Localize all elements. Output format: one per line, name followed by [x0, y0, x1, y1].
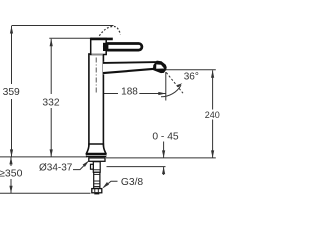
- dim 0-45 vertical line upper: [163, 142, 165, 158]
- angle arc: [161, 85, 181, 97]
- spout beak: [153, 61, 166, 73]
- dim 240 extension line: [166, 69, 216, 71]
- deck top line: [0, 156, 87, 158]
- dashed raised lever arc: [99, 26, 120, 35]
- dim 359 extension line top: [12, 25, 114, 27]
- svg-text:359: 359: [3, 87, 20, 98]
- dashed 36deg line: [166, 73, 183, 94]
- base flare: [86, 144, 106, 154]
- washer plate: [89, 158, 105, 161]
- svg-text:≥350: ≥350: [0, 168, 23, 180]
- svg-text:188: 188: [121, 87, 138, 98]
- svg-text:G3/8: G3/8: [121, 177, 144, 188]
- faucet body: [89, 54, 104, 148]
- shank tip: [94, 193, 99, 195]
- spout beak white slit: [156, 64, 164, 68]
- dim 332 extension line: [49, 37, 92, 39]
- lever neck: [103, 43, 108, 51]
- lever handle capsule: [104, 44, 142, 51]
- svg-text:36°: 36°: [184, 71, 199, 82]
- dim >=350 vertical line: [10, 157, 12, 166]
- svg-text:332: 332: [42, 97, 59, 108]
- clamp bracket: [93, 162, 100, 173]
- svg-text:0 - 45: 0 - 45: [152, 132, 179, 143]
- shank: [94, 172, 100, 188]
- spout bottom edge: [103, 69, 155, 73]
- clamp lug: [91, 164, 94, 169]
- centerline: [95, 58, 97, 93]
- head block: [91, 39, 107, 55]
- bottom reference line: [0, 192, 91, 194]
- joint hairline: [92, 54, 103, 56]
- spout top edge: [103, 61, 158, 64]
- angle arc arrowhead: [177, 83, 182, 87]
- dim 188 line: [96, 93, 118, 95]
- spout tip vertical thin line: [165, 72, 167, 101]
- svg-text:240: 240: [205, 110, 220, 120]
- deck bottom line (right): [107, 166, 166, 168]
- leader G3/8: [103, 181, 117, 187]
- o-ring band: [86, 154, 106, 157]
- spout: [103, 61, 159, 74]
- svg-text:Ø34-37: Ø34-37: [39, 163, 73, 174]
- leader O34-37: [73, 162, 88, 170]
- nut: [92, 189, 102, 193]
- dim 240 vertical line: [212, 70, 214, 109]
- dim 359 vertical line: [11, 26, 13, 84]
- head top bar: [91, 38, 113, 41]
- dim 0-45 vertical line lower: [163, 167, 165, 175]
- dim 332 vertical line: [50, 39, 52, 94]
